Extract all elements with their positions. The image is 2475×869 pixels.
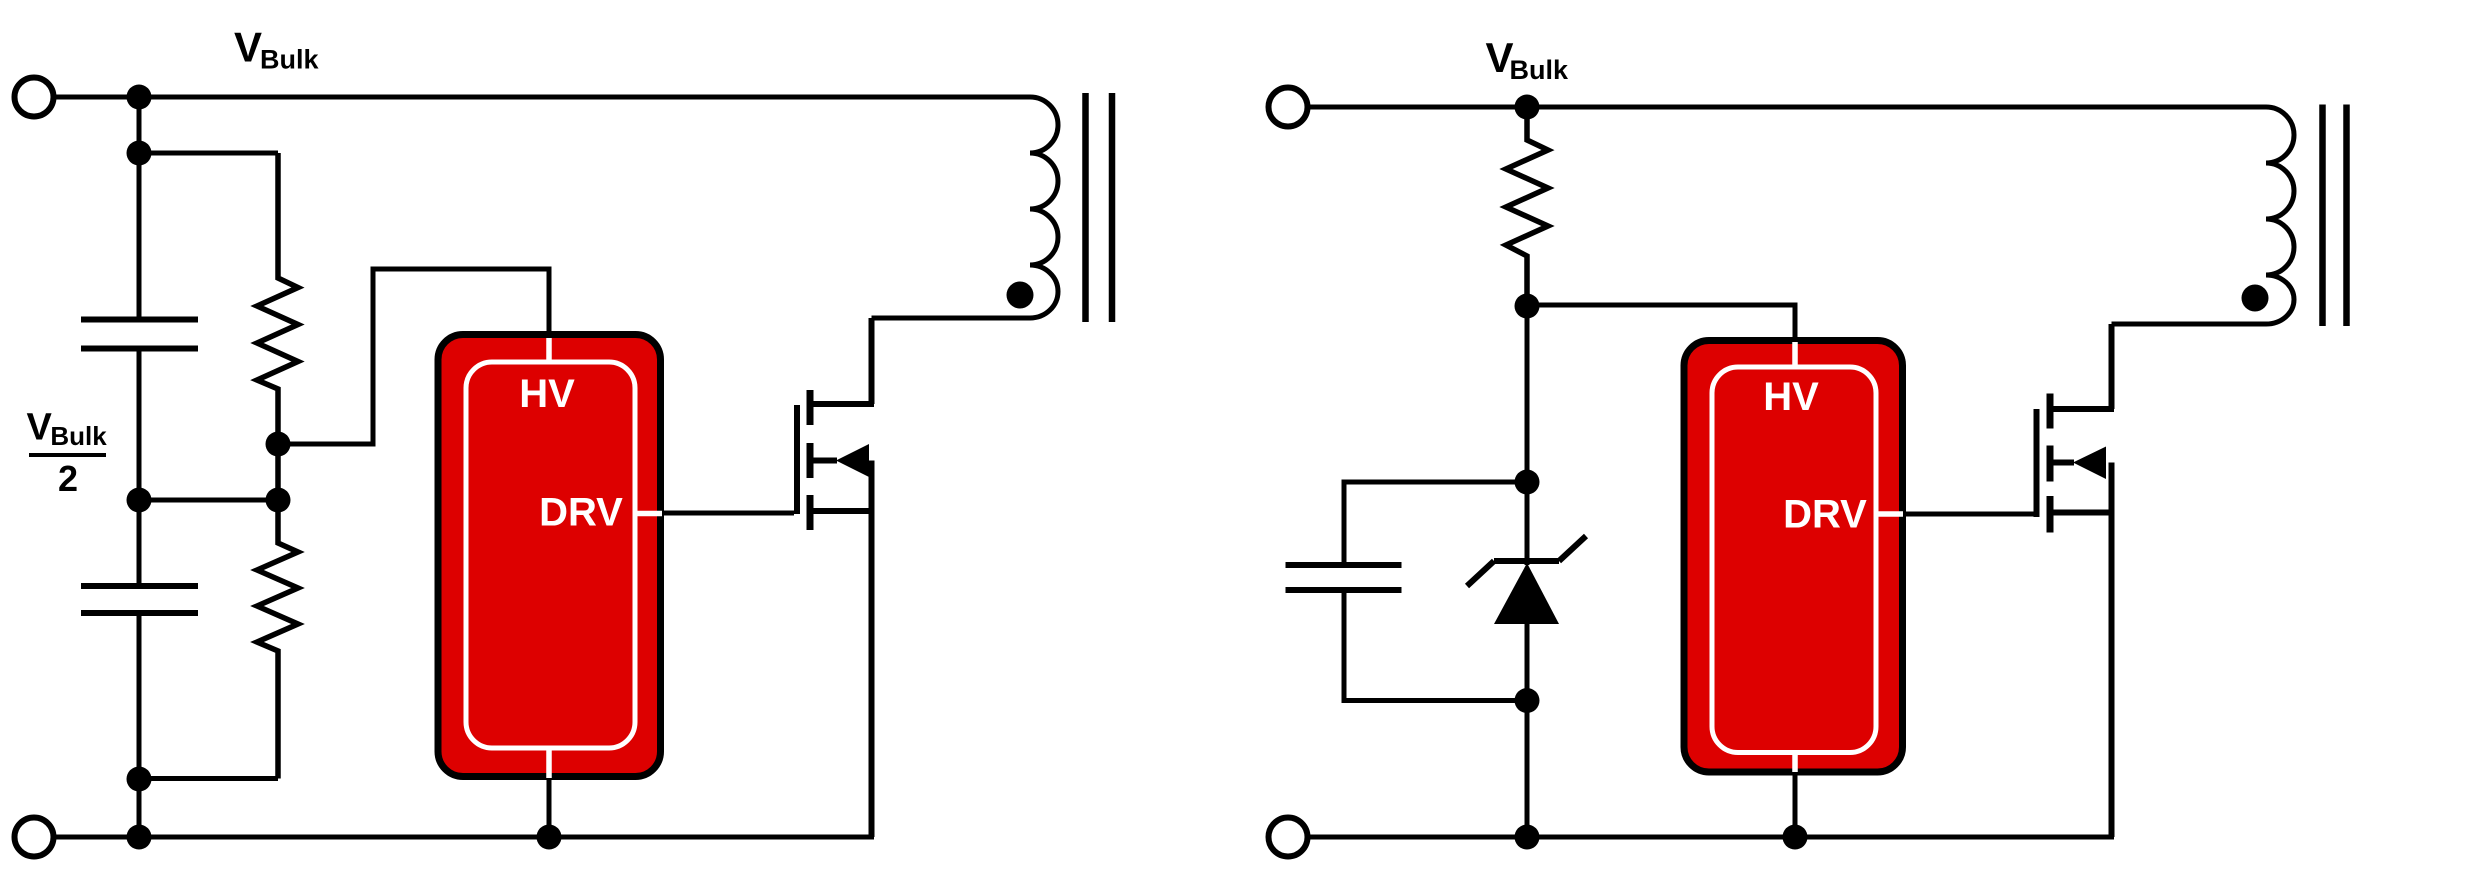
pin DRV white lead U2 bbox=[1876, 511, 1903, 517]
wire bottom rail bbox=[55, 835, 874, 840]
RIGHT CIRCUIT bbox=[1269, 88, 2241, 857]
capacitor C3 bbox=[1286, 565, 1402, 590]
wire U1 bottom pin bbox=[547, 778, 552, 837]
svg-text:DRV: DRV bbox=[1783, 493, 1867, 537]
node rail junction left bbox=[127, 825, 152, 850]
node R3 bottom junction bbox=[1515, 294, 1540, 319]
wire cap bottom to rail bbox=[137, 613, 142, 837]
capacitor C2 bbox=[81, 586, 198, 613]
svg-text:2: 2 bbox=[58, 458, 78, 499]
terminal return right bottom bbox=[1269, 818, 1308, 857]
wire branch to U2 HV bbox=[1527, 305, 1795, 340]
wire top rail right bbox=[1309, 105, 2240, 110]
wire zener to rail bbox=[1525, 624, 1530, 837]
node divider mid junction bbox=[266, 488, 291, 513]
transformer T1 primary bbox=[872, 97, 1059, 318]
terminal input top-left bbox=[15, 78, 54, 117]
node rail junction center bbox=[537, 825, 562, 850]
svg-text:HV: HV bbox=[1763, 375, 1819, 419]
terminal input right top bbox=[1269, 88, 1308, 127]
ic U1 inner outline bbox=[466, 362, 635, 748]
transformer T1 core bbox=[1086, 93, 1113, 322]
pin DRV white lead bbox=[635, 511, 662, 517]
wire top rail VBulk bbox=[55, 95, 1010, 100]
node rail junction zener bbox=[1515, 825, 1540, 850]
node zener bottom junction bbox=[1515, 688, 1540, 713]
wire DRV to gate bbox=[662, 511, 794, 516]
wire between capacitors bbox=[137, 349, 142, 587]
ic U1 body bbox=[438, 335, 662, 779]
node cap branch junction bbox=[1515, 470, 1540, 495]
wire cap bottom branch bbox=[1344, 590, 1527, 701]
transformer T2 core bbox=[2323, 105, 2347, 327]
wire cap top branch bbox=[1344, 482, 1527, 565]
resistor R1 bbox=[257, 153, 298, 444]
transistor Q1 bbox=[797, 318, 874, 837]
resistor R3 bbox=[1506, 107, 1548, 306]
pin GND white lead U2 bbox=[1792, 753, 1798, 773]
wire R2 bottom tie bbox=[139, 776, 278, 781]
node junction top bbox=[127, 85, 152, 110]
wire DRV to gate right bbox=[1904, 512, 2034, 517]
svg-text:HV: HV bbox=[519, 372, 575, 416]
transformer T2 primary bbox=[2112, 107, 2295, 324]
zener D1 bbox=[1467, 536, 1586, 624]
transformer T1 phase dot bbox=[1007, 282, 1034, 309]
wire vertical left string upper bbox=[137, 97, 142, 317]
ic U2 body bbox=[1684, 341, 1903, 773]
pin HV white lead U2 bbox=[1792, 342, 1798, 368]
wire R1 bottom to HV riser bbox=[278, 269, 549, 444]
svg-text:DRV: DRV bbox=[539, 491, 623, 535]
transformer T2 phase dot bbox=[2242, 285, 2269, 312]
transistor Q2 bbox=[2037, 324, 2115, 837]
wire bottom rail right bbox=[1309, 835, 2114, 840]
svg-text:VBulk: VBulk bbox=[234, 24, 320, 75]
terminal return bottom-left bbox=[15, 818, 54, 857]
node lower tie junction bbox=[127, 767, 152, 792]
ic U2 inner outline bbox=[1712, 367, 1876, 753]
node rail junction U2 bbox=[1783, 825, 1808, 850]
node junction top right bbox=[1515, 95, 1540, 120]
resistor R2 bbox=[257, 444, 298, 779]
wire mid tie bbox=[139, 498, 278, 503]
pin GND white lead bbox=[546, 748, 552, 778]
svg-text:VBulk: VBulk bbox=[1486, 34, 1570, 85]
wire U2 bottom pin bbox=[1793, 774, 1798, 837]
label VBulk/2 bbox=[27, 407, 108, 500]
node junction second bbox=[127, 141, 152, 166]
LEFT CIRCUIT bbox=[15, 78, 1011, 857]
wire R3 to zener bbox=[1525, 306, 1530, 565]
svg-text:VBulk: VBulk bbox=[27, 407, 108, 452]
capacitor C1 bbox=[81, 320, 198, 349]
wire branch to R1 top bbox=[139, 151, 278, 156]
pin HV white lead bbox=[546, 338, 552, 362]
node cap mid junction bbox=[127, 488, 152, 513]
node R1 bottom junction bbox=[266, 432, 291, 457]
